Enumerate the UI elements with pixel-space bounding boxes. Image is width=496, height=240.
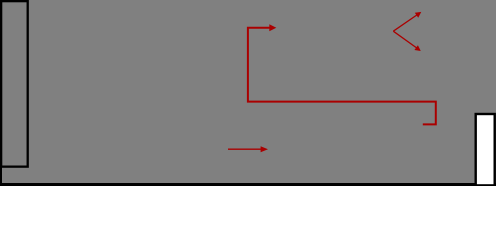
red path wire <box>248 28 436 125</box>
bottom arrowhead <box>261 146 268 152</box>
chevron lower arm <box>393 31 416 48</box>
window left border <box>0 0 2 186</box>
chevron upper arm <box>393 15 417 31</box>
left scrollbar rectangle <box>1 1 28 167</box>
chevron upper arrowhead <box>415 12 422 18</box>
bottom arrow line <box>228 148 261 150</box>
window bottom border <box>0 183 496 186</box>
bottom-right scrollbar thumb rectangle <box>476 114 495 185</box>
chevron lower arrowhead <box>414 45 420 51</box>
red path arrowhead <box>269 24 276 31</box>
